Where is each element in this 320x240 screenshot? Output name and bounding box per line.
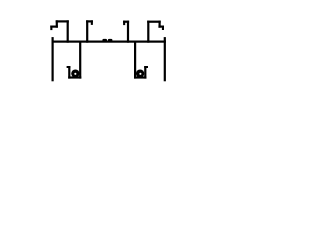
left channel outer wall — [79, 42, 81, 79]
wire main top line — [52, 41, 166, 43]
aluminium curtain-rail profile cross-section, technical line drawing — [0, 0, 216, 103]
left flange lip — [50, 26, 52, 31]
left cap T2 — [86, 20, 93, 22]
right leg — [164, 37, 166, 81]
right flange lip — [162, 26, 164, 31]
right cap T2m lip — [123, 21, 125, 26]
left cap T2 lip — [91, 20, 93, 25]
left leg — [52, 37, 54, 81]
left slot wall V2 — [67, 20, 69, 42]
right slot wall V3m — [127, 21, 129, 43]
right screw boss donut — [136, 69, 144, 77]
right cap T2m — [123, 21, 129, 23]
left screw boss donut — [71, 69, 79, 77]
right channel inner wall — [144, 66, 146, 78]
left rib V1 — [56, 20, 58, 27]
left channel bottom — [68, 76, 81, 78]
right cap T1m — [147, 21, 161, 23]
left slot wall V3 — [86, 20, 88, 42]
right rib V1m — [159, 21, 161, 28]
left flange — [50, 26, 58, 28]
right channel nub — [144, 66, 148, 68]
right channel bottom — [134, 76, 146, 78]
left channel nub — [67, 66, 71, 68]
center bump right — [108, 39, 113, 42]
left channel inner wall — [68, 66, 70, 78]
right channel outer wall — [134, 42, 136, 79]
right flange — [158, 26, 164, 28]
center bump left — [102, 39, 107, 42]
left cap T1 — [56, 20, 69, 22]
right slot wall V2m — [147, 21, 149, 43]
